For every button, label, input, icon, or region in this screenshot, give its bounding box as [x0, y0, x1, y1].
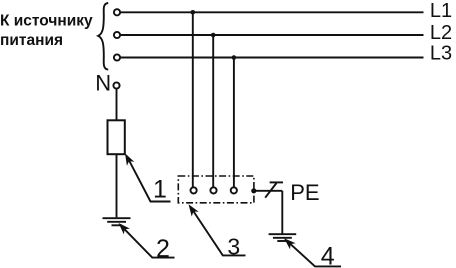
- svg-text:2: 2: [156, 235, 170, 263]
- svg-text:L2: L2: [430, 22, 452, 44]
- svg-text:3: 3: [227, 234, 240, 260]
- svg-text:питания: питания: [0, 32, 63, 49]
- svg-text:L3: L3: [430, 43, 452, 65]
- svg-text:4: 4: [321, 242, 335, 268]
- svg-text:1: 1: [153, 175, 167, 203]
- svg-text:L1: L1: [430, 0, 452, 22]
- svg-text:К источнику: К источнику: [0, 13, 93, 30]
- svg-text:N: N: [95, 70, 111, 95]
- svg-text:PE: PE: [290, 180, 319, 205]
